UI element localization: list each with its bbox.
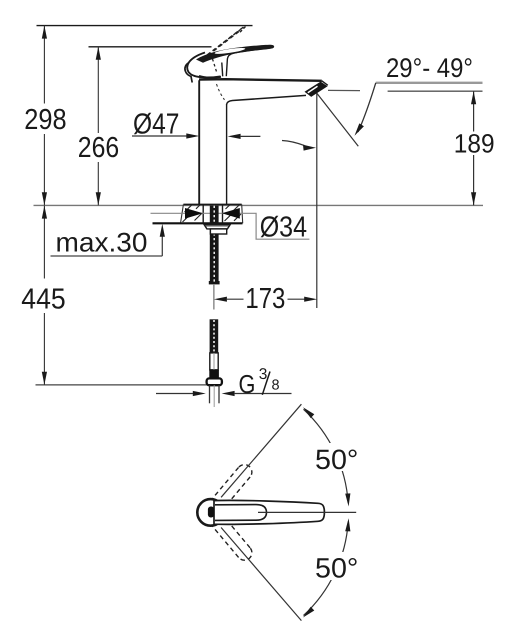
section hatching: [183, 205, 242, 222]
hidden line on ball (dashed): [213, 59, 217, 73]
vertical reference line at spout tip: [316, 88, 318, 308]
svg-text:G: G: [239, 369, 256, 399]
underline of 29-49: [376, 82, 483, 84]
faucet body right edge: [226, 104, 228, 204]
svg-text:29°- 49°: 29°- 49°: [386, 53, 473, 83]
center line: [258, 511, 356, 513]
aerator tip: [305, 82, 328, 97]
handle ball base: [187, 53, 220, 78]
Ø34 arrows: [185, 208, 203, 219]
spout bottom edge: [227, 95, 306, 104]
svg-text:189: 189: [454, 128, 495, 158]
dashed handle position down: [205, 508, 252, 561]
pivot slot: [208, 507, 214, 518]
svg-text:266: 266: [78, 132, 119, 164]
curved leader arrow of 29-49: [358, 83, 376, 132]
dimension line 189: [473, 91, 475, 205]
dimension 173: [227, 298, 305, 300]
nut step: [210, 229, 226, 234]
dimension line 298: [43, 26, 45, 206]
swing arc down: [304, 522, 349, 616]
ball left hook: [185, 63, 192, 83]
svg-text:298: 298: [24, 104, 66, 136]
bottom reference line 445: [36, 384, 216, 386]
svg-text:50°: 50°: [315, 444, 358, 475]
water stream diagonal: [315, 91, 358, 146]
handle top highlight: [214, 47, 245, 55]
swing arc up: [304, 409, 349, 503]
counter top line: [34, 204, 484, 206]
svg-text:173: 173: [245, 283, 285, 315]
handle top view body: [214, 500, 324, 524]
threaded rod: [210, 206, 219, 282]
mounting flange top: [183, 203, 241, 205]
flange left slant: [181, 204, 184, 223]
hidden internal edge (dashed): [217, 84, 225, 100]
handle top dark band: [196, 45, 274, 63]
G3/8 dimension arrows: [156, 393, 194, 395]
svg-text:3: 3: [259, 366, 268, 383]
mounting nut: [204, 224, 230, 229]
Ø34 leader line: [151, 213, 310, 239]
reference line 266: [89, 46, 212, 48]
lever neck left edge: [221, 63, 224, 77]
center line below rod: [213, 285, 215, 310]
svg-text:Ø34: Ø34: [260, 212, 307, 244]
G3/8 fitting nut: [207, 378, 222, 385]
svg-text:8: 8: [272, 377, 280, 393]
faucet body top and spout top edge: [199, 79, 322, 81]
dimension line 266: [97, 47, 99, 206]
angle ray down: [221, 528, 301, 621]
spout level reference line: [328, 89, 360, 91]
top reference line 298: [37, 25, 253, 27]
handle pivot cap: [197, 499, 224, 526]
angle ray up: [221, 404, 301, 497]
dashed handle position up: [205, 465, 252, 518]
svg-text:max.30: max.30: [56, 228, 148, 258]
hose middle section: [210, 353, 218, 370]
flange right slant: [242, 204, 243, 223]
ball bottom arc: [199, 76, 221, 78]
connection tube: [209, 385, 211, 403]
braided hose: [210, 319, 219, 353]
svg-text:445: 445: [21, 283, 65, 315]
hose crimp collar: [209, 370, 219, 379]
small curved leader arrow to spout tip line: [282, 141, 305, 146]
faucet body left edge: [198, 80, 200, 204]
handle inner band: [215, 505, 267, 521]
svg-text:50°: 50°: [315, 553, 358, 584]
dimension line 445: [43, 206, 45, 385]
cartridge housing edges: [202, 204, 204, 223]
dashed raised handle: [199, 27, 246, 63]
counter underside line: [153, 222, 243, 224]
handle lever underside: [226, 48, 272, 77]
